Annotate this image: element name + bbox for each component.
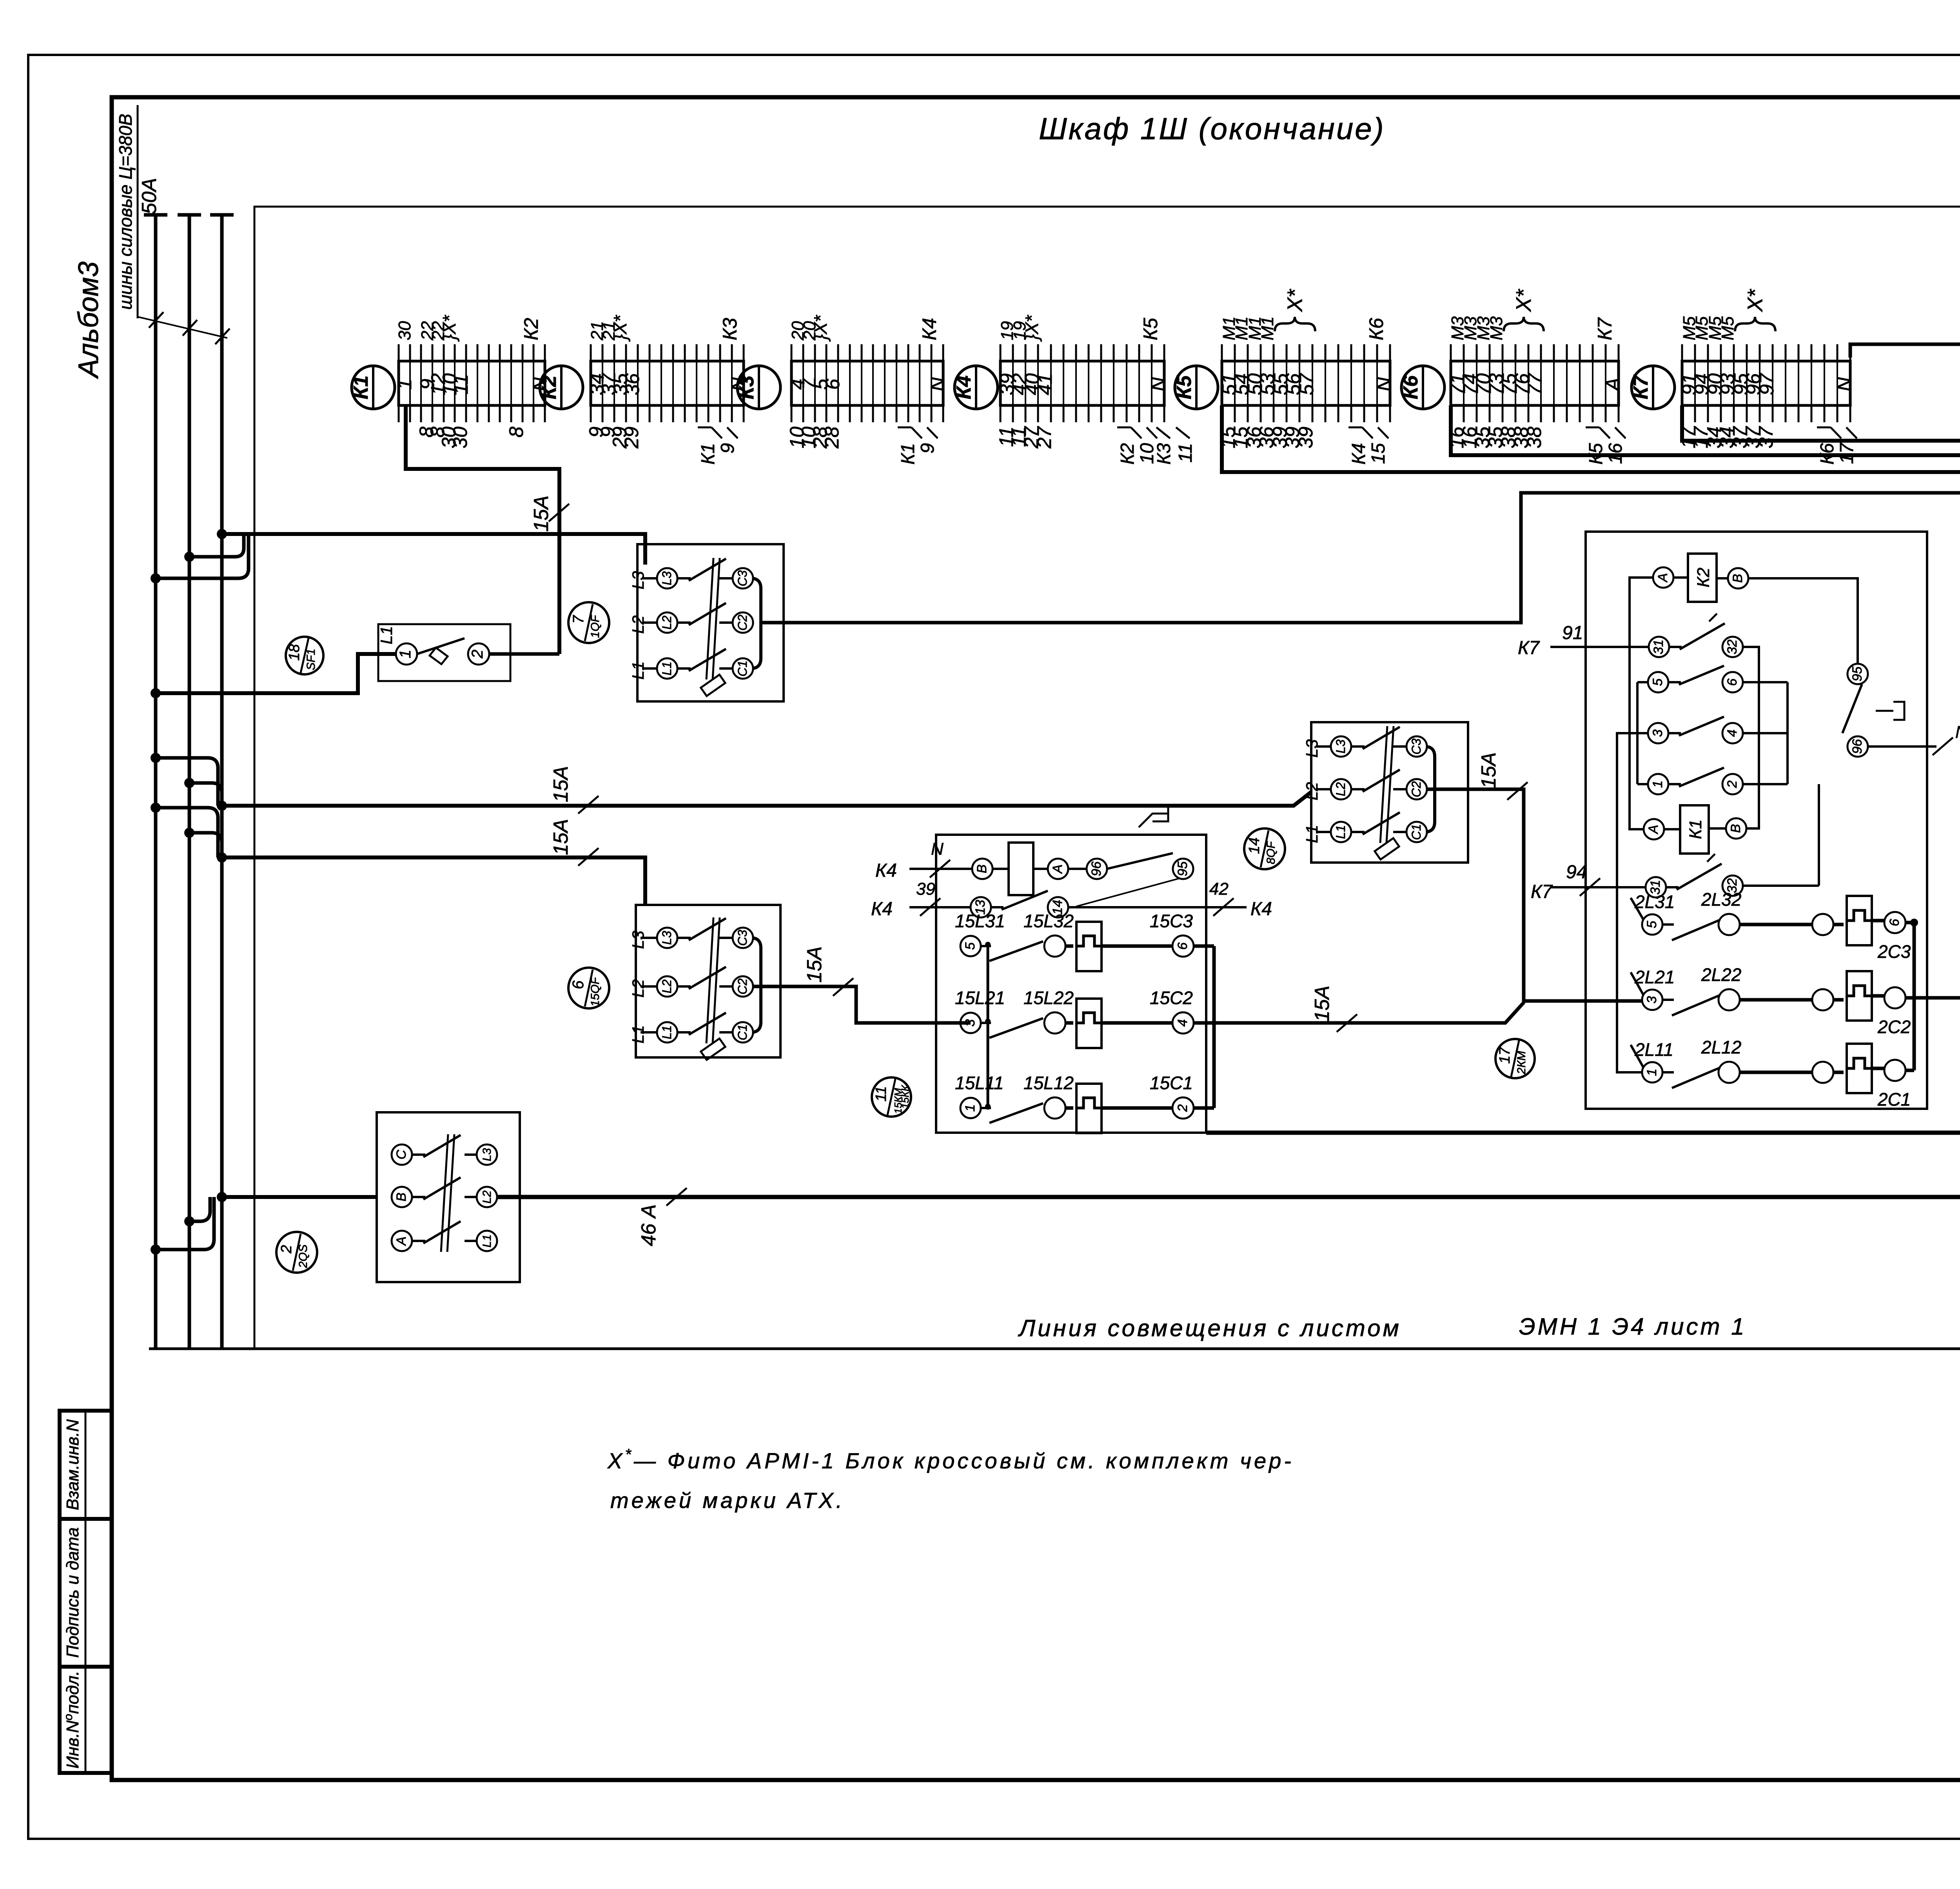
svg-text:11: 11 <box>873 1086 889 1101</box>
link from 95 to aux row <box>1076 878 1180 906</box>
svg-text:N: N <box>1955 723 1960 742</box>
wire: 15KM bottom run to fan feeder riser <box>1206 1131 1960 1135</box>
svg-text:К4: К4 <box>1348 443 1369 465</box>
aux contact 3-4 <box>1648 723 1668 743</box>
cabinet 1Ш enclosure box <box>254 207 1960 1348</box>
svg-text:С2: С2 <box>1409 781 1423 797</box>
rating 15А after 8QF <box>1507 782 1528 800</box>
svg-text:15QF: 15QF <box>589 977 602 1007</box>
wire: 2QS output 46А run <box>497 1195 1960 1199</box>
svg-text:Линия совмещения с листом: Линия совмещения с листом <box>1018 1315 1401 1341</box>
terminal block К4 circle <box>955 366 998 409</box>
svg-text:38: 38 <box>1523 427 1545 449</box>
svg-text:N: N <box>931 839 944 859</box>
svg-text:15L21: 15L21 <box>955 988 1005 1008</box>
svg-text:К6: К6 <box>1365 318 1387 340</box>
svg-text:30: 30 <box>449 427 471 449</box>
svg-text:15А: 15А <box>550 819 572 855</box>
svg-text:15L22: 15L22 <box>1024 988 1074 1008</box>
pole L3-С3 <box>641 937 657 939</box>
svg-text:Х*: Х* <box>1743 289 1767 312</box>
svg-text:27: 27 <box>1033 426 1055 449</box>
breaker linkage bar <box>706 558 713 679</box>
svg-text:2: 2 <box>1725 780 1740 788</box>
svg-text:6: 6 <box>1725 678 1740 686</box>
tap T3 phase jogs <box>156 808 218 857</box>
svg-text:3: 3 <box>1644 996 1659 1003</box>
jumper reference К6 17 below strip <box>1817 427 1831 429</box>
wire: 96 to N К7 <box>1868 745 1936 748</box>
svg-text:6: 6 <box>1175 942 1190 950</box>
rating 15А on T2 <box>578 796 599 814</box>
terminal block К2 circle <box>540 366 583 409</box>
terminal block К3 strip <box>791 361 943 405</box>
pole L3-С3 <box>1316 745 1330 748</box>
pole L1-С1 <box>1316 831 1330 833</box>
svg-text:77: 77 <box>1524 372 1546 395</box>
svg-text:15: 15 <box>1368 443 1389 464</box>
svg-text:К1: К1 <box>698 443 719 465</box>
svg-text:7: 7 <box>570 615 587 624</box>
pole L1-С1 <box>642 667 657 670</box>
svg-text:1: 1 <box>1644 1069 1659 1076</box>
К7 pin numbers <box>1677 316 1855 448</box>
terminal block К3 circle <box>737 366 780 409</box>
svg-text:К2: К2 <box>1117 443 1138 465</box>
svg-text:15А: 15А <box>1477 752 1500 789</box>
svg-text:4: 4 <box>1175 1019 1190 1027</box>
svg-text:2L32: 2L32 <box>1701 889 1741 910</box>
svg-text:3: 3 <box>963 1019 978 1026</box>
К1 pin numbers <box>394 314 551 449</box>
svg-text:С1: С1 <box>1409 824 1423 840</box>
circuit breaker 8QF <box>1311 722 1468 863</box>
svg-text:К7: К7 <box>1594 317 1616 340</box>
svg-text:2L11: 2L11 <box>1634 1039 1673 1060</box>
svg-text:К4: К4 <box>875 860 897 881</box>
relay coil K2 <box>1653 567 1673 588</box>
wire: K7 strip to cable C3 <box>1682 405 1960 441</box>
line of coincidence with sheet 1 (bottom rule) <box>149 1348 1960 1350</box>
power bus L2 (vertical) <box>188 215 191 1349</box>
svg-text:37: 37 <box>1755 426 1777 449</box>
svg-text:28: 28 <box>821 427 843 449</box>
svg-text:L3: L3 <box>1334 739 1348 754</box>
svg-text:К7: К7 <box>1531 881 1553 902</box>
svg-text:К2: К2 <box>1694 568 1713 587</box>
svg-text:95: 95 <box>1175 861 1190 876</box>
pole L3-С3 <box>642 577 657 579</box>
svg-text:L2: L2 <box>660 979 674 994</box>
svg-text:В: В <box>975 865 989 874</box>
svg-text:5: 5 <box>1644 921 1659 928</box>
tap T3 junction dots <box>151 803 161 813</box>
svg-text:6: 6 <box>570 980 587 989</box>
jumper reference К1 9 below strip <box>898 427 911 429</box>
contactor box 15KM <box>936 835 1206 1133</box>
svg-text:2L31: 2L31 <box>1634 892 1675 912</box>
terminal block К2 strip <box>591 361 744 405</box>
pole L2-С2 <box>1316 788 1330 790</box>
2QS pole С-L3 <box>392 1144 412 1165</box>
output bus of 2C rows <box>1906 921 1914 925</box>
svg-text:1QF: 1QF <box>589 614 602 638</box>
svg-text:2: 2 <box>278 1245 295 1253</box>
svg-text:L2: L2 <box>1334 782 1348 796</box>
svg-text:39: 39 <box>916 879 935 899</box>
svg-text:ЭМН 1 Э4 лист 1: ЭМН 1 Э4 лист 1 <box>1519 1313 1747 1340</box>
svg-text:В: В <box>1730 574 1745 583</box>
jumper reference К5 16 below strip <box>1586 427 1599 429</box>
breaker output merge bracket <box>1426 747 1435 789</box>
tap T4 (2QS) junction dots <box>217 1192 227 1202</box>
svg-text:N: N <box>927 377 949 391</box>
К2 pin numbers <box>585 314 749 449</box>
svg-text:С3: С3 <box>1409 738 1423 754</box>
svg-text:3: 3 <box>1650 729 1665 737</box>
svg-text:2КМ: 2КМ <box>1515 1051 1528 1074</box>
pole L2-С2 <box>642 621 657 624</box>
designator circle 6/15QF <box>568 968 609 1008</box>
power bus L1 (vertical) <box>154 215 158 1349</box>
svg-text:18: 18 <box>286 644 303 661</box>
designator circle 17/2КМ <box>1495 1039 1535 1078</box>
svg-text:1: 1 <box>963 1104 978 1112</box>
svg-text:К2: К2 <box>538 375 561 399</box>
wire: K2 coil left leg <box>1630 578 1653 829</box>
aux contact 5-6 <box>1648 672 1668 692</box>
svg-text:9: 9 <box>717 443 738 454</box>
tap SF1 junction dot <box>151 688 161 698</box>
svg-text:5: 5 <box>1650 678 1665 686</box>
breaker output merge bracket <box>752 578 761 623</box>
svg-text:97: 97 <box>1756 372 1778 395</box>
svg-text:}Х*: }Х* <box>810 314 831 342</box>
circuit breaker 15QF <box>636 905 780 1057</box>
svg-text:17: 17 <box>1497 1046 1513 1064</box>
К4 pin numbers <box>995 314 1169 449</box>
svg-text:11: 11 <box>1175 443 1196 463</box>
svg-text:В: В <box>394 1193 409 1202</box>
svg-text:14: 14 <box>1246 837 1263 854</box>
svg-text:57: 57 <box>1296 372 1318 395</box>
left bus of aux contacts <box>1637 681 1648 683</box>
svg-text:9: 9 <box>917 443 938 454</box>
svg-text:С3: С3 <box>735 930 750 946</box>
2QS pole В-L2 <box>392 1187 412 1207</box>
svg-text:L1: L1 <box>377 626 396 645</box>
jumper reference К4 15 below strip <box>1348 427 1362 429</box>
svg-text:17: 17 <box>1837 442 1857 464</box>
svg-text:1: 1 <box>1650 781 1665 788</box>
wire: 15KM output with 15А <box>1194 1002 1524 1023</box>
svg-text:2L22: 2L22 <box>1701 964 1741 985</box>
svg-text:N: N <box>1373 377 1395 391</box>
aux contact 1-2 <box>1648 774 1668 794</box>
svg-text:Альбом3: Альбом3 <box>73 262 104 379</box>
svg-text:36: 36 <box>621 373 643 395</box>
tap T1 phase jogs <box>189 534 244 557</box>
svg-text:L2: L2 <box>629 979 647 998</box>
svg-text:L3: L3 <box>629 571 647 590</box>
wire: tap T2 to 8QF <box>222 792 1311 806</box>
circuit breaker 1QF <box>637 544 784 701</box>
power bus L3 (vertical) <box>220 215 224 1349</box>
designator circle 14/8QF <box>1244 828 1285 869</box>
svg-text:L1: L1 <box>629 661 647 680</box>
wire: K6 strip to cable C2 <box>1451 405 1960 455</box>
svg-text:К7: К7 <box>1630 374 1652 399</box>
svg-text:}Х*: }Х* <box>610 314 630 342</box>
К5 pin numbers <box>1217 316 1395 449</box>
svg-text:2С2: 2С2 <box>1877 1017 1911 1037</box>
svg-text:К4: К4 <box>918 318 940 340</box>
svg-text:42: 42 <box>1209 879 1229 899</box>
svg-text:Х*— Фито АРМI-1 Блок кроссовый: Х*— Фито АРМI-1 Блок кроссовый см. компл… <box>607 1446 1294 1473</box>
svg-text:С2: С2 <box>735 614 750 630</box>
svg-text:6: 6 <box>822 379 844 390</box>
svg-text:1: 1 <box>394 379 416 390</box>
wire: K1 strip to SF1 riser <box>406 405 559 654</box>
wire: K7 N terminal to busbar <box>1850 344 1960 358</box>
svg-text:30: 30 <box>395 321 414 340</box>
svg-text:С1: С1 <box>735 1024 750 1041</box>
svg-text:L2: L2 <box>481 1190 494 1204</box>
label column: шины силовые Ц=380В, 50А <box>137 105 139 318</box>
rating 15А after 15QF <box>833 978 853 996</box>
svg-text:1: 1 <box>397 650 414 658</box>
svg-text:31: 31 <box>1651 639 1666 654</box>
svg-text:95: 95 <box>1850 667 1865 681</box>
svg-text:С2: С2 <box>735 978 750 994</box>
breaker output merge bracket <box>752 938 761 986</box>
svg-text:8: 8 <box>505 427 527 438</box>
trip contact 95-96 <box>1847 664 1868 684</box>
contactor panel box <box>1586 532 1927 1109</box>
svg-text:15А: 15А <box>1311 986 1334 1022</box>
svg-text:50А: 50А <box>138 178 161 214</box>
svg-text:А: А <box>394 1237 409 1246</box>
SF1 terminal 2 <box>468 643 489 665</box>
svg-text:К1: К1 <box>1686 819 1705 839</box>
wire: 1QF C2 output long run <box>761 493 1960 623</box>
wire: SF1 out to K1 riser <box>489 652 559 656</box>
svg-text:39: 39 <box>1295 427 1317 449</box>
wire: 8QF C2 output to 2L21 contact <box>1427 789 1642 1001</box>
tap T2 phase jogs <box>156 758 218 806</box>
svg-text:L2: L2 <box>629 616 647 634</box>
wire: tap T4 to 2QS switch <box>222 1195 377 1199</box>
svg-text:4: 4 <box>1725 730 1740 737</box>
svg-text:}Х*: }Х* <box>439 314 459 342</box>
svg-text:2L12: 2L12 <box>1701 1037 1741 1057</box>
svg-text:SF1: SF1 <box>305 648 318 670</box>
switch SF1 box <box>378 624 510 681</box>
relay coil K1 <box>1644 819 1664 839</box>
svg-text:15L12: 15L12 <box>1024 1073 1074 1093</box>
svg-text:L3: L3 <box>481 1148 494 1161</box>
svg-text:А: А <box>1050 865 1065 874</box>
svg-text:L3: L3 <box>660 931 674 945</box>
svg-text:тежей марки АТХ.: тежей марки АТХ. <box>610 1488 845 1513</box>
svg-text:К1: К1 <box>350 376 372 400</box>
svg-text:15С2: 15С2 <box>1150 988 1193 1008</box>
left margin table <box>60 1411 112 1773</box>
svg-text:5: 5 <box>963 942 978 950</box>
fuse rating 15А on SF1 riser <box>549 504 569 521</box>
svg-text:К5: К5 <box>1140 318 1161 340</box>
wire: K2 coil B to trip contact 95 <box>1748 578 1858 664</box>
terminal block К1 circle <box>352 366 395 409</box>
svg-text:К4: К4 <box>1250 899 1272 919</box>
jumper reference К1 9 below strip <box>698 427 711 429</box>
svg-text:15А: 15А <box>803 946 826 983</box>
wire: K5 strip to cable C1 <box>1222 405 1960 472</box>
tap T1 junction dots <box>217 529 227 539</box>
rating 46 А <box>666 1188 687 1206</box>
wire: tap T1 to 1QF <box>222 534 645 565</box>
svg-text:Взам.инв.N: Взам.инв.N <box>63 1419 82 1510</box>
svg-text:15L32: 15L32 <box>1024 911 1074 931</box>
svg-text:Шкаф 1Ш (окончание): Шкаф 1Ш (окончание) <box>1039 111 1385 146</box>
X* bracket over К6 <box>1504 317 1544 331</box>
SF1 terminal 1 <box>396 643 417 665</box>
wire: 2C2 output up to mechanism feeder <box>1906 656 1960 998</box>
switch 2QS box <box>377 1112 520 1282</box>
svg-text:А: А <box>1602 378 1624 392</box>
svg-text:L1: L1 <box>1303 825 1321 843</box>
svg-text:2: 2 <box>1175 1104 1190 1112</box>
svg-text:С3: С3 <box>735 570 750 586</box>
jumper reference К2 10 below strip <box>1117 427 1131 429</box>
svg-text:L1: L1 <box>1334 825 1348 839</box>
svg-text:L2: L2 <box>660 616 674 630</box>
three-phase slash marks on buses <box>138 317 227 338</box>
svg-text:К7: К7 <box>1518 638 1540 658</box>
X* bracket over К5 <box>1275 317 1315 331</box>
svg-text:С: С <box>394 1150 409 1159</box>
designator circle 18/SF1 <box>286 637 323 674</box>
К3 pin numbers <box>786 314 949 449</box>
2QS pole А-L1 <box>392 1231 412 1251</box>
svg-text:15L31: 15L31 <box>955 911 1005 931</box>
output bus of 15KM rows <box>1194 944 1214 948</box>
svg-text:2: 2 <box>469 650 486 659</box>
svg-text:Х*: Х* <box>1512 289 1535 312</box>
svg-text:А: А <box>1655 573 1670 583</box>
svg-text:2С1: 2С1 <box>1877 1089 1911 1110</box>
diagonal feeds to 2L rows <box>1631 898 1643 919</box>
trip contact blade to 95 <box>1107 853 1173 869</box>
svg-text:2L21: 2L21 <box>1634 967 1675 987</box>
designator circle 7/1QF <box>568 602 609 643</box>
svg-text:11: 11 <box>450 374 472 394</box>
terminal block К4 strip <box>1000 361 1164 405</box>
svg-text:К1: К1 <box>898 443 918 465</box>
svg-text:N: N <box>1833 377 1855 391</box>
svg-text:8QF: 8QF <box>1265 841 1278 864</box>
svg-text:15С1: 15С1 <box>1150 1073 1193 1093</box>
svg-text:96: 96 <box>1850 739 1865 754</box>
terminal block К6 circle <box>1401 366 1445 409</box>
designator circle 11/15КМ 15КК <box>872 1077 911 1117</box>
pole L2-С2 <box>641 985 657 988</box>
svg-text:29: 29 <box>621 427 642 449</box>
svg-text:15А: 15А <box>550 766 572 803</box>
svg-text:41: 41 <box>1034 373 1056 395</box>
svg-text:К6: К6 <box>1399 375 1422 399</box>
designator circle 2/2QS <box>276 1232 317 1273</box>
svg-text:шины силовые Ц=380В: шины силовые Ц=380В <box>115 114 136 310</box>
terminal block К7 strip <box>1682 361 1850 405</box>
svg-text:96: 96 <box>1089 861 1104 876</box>
svg-text:С1: С1 <box>735 661 750 677</box>
svg-text:2QS: 2QS <box>297 1244 310 1268</box>
svg-text:94: 94 <box>1566 862 1587 883</box>
svg-text:В: В <box>1728 824 1743 833</box>
svg-text:6: 6 <box>1887 919 1902 926</box>
svg-text:L1: L1 <box>660 661 674 676</box>
svg-text:2С3: 2С3 <box>1877 941 1911 962</box>
svg-text:L1: L1 <box>629 1025 647 1044</box>
svg-text:15С3: 15С3 <box>1150 911 1193 931</box>
svg-text:46 А: 46 А <box>637 1204 660 1246</box>
svg-text:L2: L2 <box>1303 782 1321 801</box>
rating 15А on T3 <box>578 848 599 866</box>
svg-text:К2: К2 <box>520 318 542 340</box>
terminal block К6 strip <box>1451 361 1619 405</box>
svg-text:L3: L3 <box>660 571 674 585</box>
breaker linkage bar <box>706 917 713 1043</box>
terminal block К1 strip <box>399 361 545 405</box>
svg-text:N: N <box>1147 377 1169 391</box>
svg-text:К3: К3 <box>719 318 741 340</box>
svg-text:К5: К5 <box>1173 375 1196 399</box>
svg-text:L1: L1 <box>660 1025 674 1039</box>
svg-text:К3: К3 <box>1154 443 1174 465</box>
wire: tap T3 to 15QF <box>222 857 645 905</box>
svg-text:Х*: Х* <box>1283 289 1307 312</box>
SF1 blade <box>417 638 465 654</box>
X* bracket over К7 <box>1735 317 1775 331</box>
svg-text:15L11: 15L11 <box>955 1073 1004 1093</box>
svg-text:L3: L3 <box>1303 739 1321 758</box>
tap T4 phase jogs <box>189 1197 210 1221</box>
wire: 32 output down to K1 coil <box>1743 647 1759 828</box>
svg-text:15КК: 15КК <box>899 1085 911 1109</box>
wire: 15QF C2 output to 15KM <box>753 986 971 1023</box>
svg-text:L3: L3 <box>629 931 647 949</box>
wire: bus to SF1 <box>156 654 396 693</box>
svg-text:Подпись и дата: Подпись и дата <box>63 1528 82 1658</box>
terminal block К5 strip <box>1222 361 1390 405</box>
svg-text:15А: 15А <box>530 496 553 532</box>
breaker linkage bar <box>1380 726 1387 843</box>
svg-text:L1: L1 <box>481 1234 494 1247</box>
pole L1-С1 <box>641 1031 657 1034</box>
svg-text:К4: К4 <box>871 899 893 919</box>
svg-text:А: А <box>1646 825 1661 835</box>
К6 pin numbers <box>1446 316 1624 448</box>
svg-text:}Х*: }Х* <box>1022 314 1042 342</box>
terminal block К7 circle <box>1632 366 1675 409</box>
svg-text:К3: К3 <box>735 375 758 399</box>
left bus linking 15KM contacts <box>987 944 989 1110</box>
svg-text:32: 32 <box>1725 639 1740 654</box>
svg-text:К4: К4 <box>953 375 975 399</box>
terminal block К5 circle <box>1175 366 1218 409</box>
svg-text:91: 91 <box>1562 623 1583 643</box>
